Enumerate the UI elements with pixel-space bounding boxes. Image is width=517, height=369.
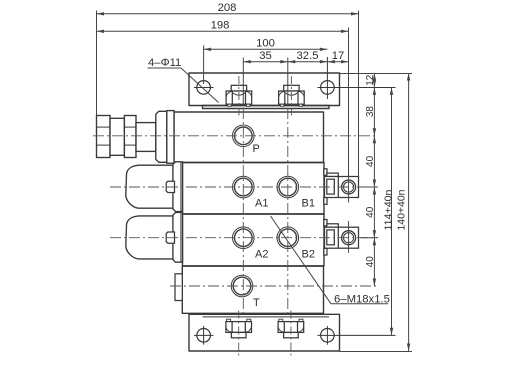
cap collar A1 (173, 162, 183, 212)
bottom mounting plate (189, 314, 340, 351)
right fitting B2 circle (342, 231, 356, 245)
valve body section A2B2 (183, 214, 325, 266)
left relief fitting hex nut (124, 116, 136, 158)
centerline bottom nut right (290, 311, 292, 357)
port B1 (277, 176, 299, 198)
cap stub A1 (166, 181, 174, 192)
port P (233, 125, 255, 147)
svg-text:35: 35 (259, 50, 272, 62)
centerline B1 fitting vertical (348, 171, 350, 203)
dimension 35 (243, 60, 287, 63)
svg-text:A1: A1 (255, 198, 268, 210)
svg-text:208: 208 (218, 2, 237, 14)
centerline row P (93, 135, 378, 137)
svg-text:40: 40 (365, 206, 376, 218)
dimension 114+40n (390, 87, 393, 335)
T section stub (175, 274, 182, 301)
dimension 100 (204, 48, 328, 51)
dimension 140+40n (407, 73, 410, 351)
extension line right 198 (348, 28, 350, 177)
cap stub A2 (166, 232, 174, 243)
bottom plate lip (203, 316, 330, 318)
label 4-phi11 (148, 57, 219, 103)
left relief fitting cylinder (110, 118, 124, 155)
extension line row A1B1 right (361, 186, 379, 188)
centerline row A1B1 (110, 186, 378, 188)
svg-text:17: 17 (332, 50, 345, 62)
plate hole bottom-right (318, 326, 396, 345)
extension line bolt1 (242, 58, 244, 106)
svg-text:B1: B1 (302, 198, 315, 210)
port A2 (233, 227, 255, 249)
bottom stud nut right (278, 319, 304, 338)
plate hole top-left (194, 81, 214, 95)
right fitting B1 circle (342, 180, 356, 194)
dimension chain right 12 (373, 73, 376, 286)
centerline top nut left (238, 76, 240, 116)
valve body section T (outlet) (182, 266, 323, 313)
extension line hole1 vertical (203, 46, 205, 85)
valve body section A1B1 (183, 163, 325, 215)
label 6-M18x1.5 (271, 216, 390, 305)
svg-text:P: P (253, 143, 260, 155)
top mounting plate (189, 73, 340, 106)
centerline vertical column A (242, 108, 244, 314)
right fitting B2 block (324, 220, 359, 256)
extension line right 208 (358, 11, 360, 177)
centerline B2 fitting vertical (348, 221, 350, 253)
left relief fitting collar (156, 111, 167, 162)
svg-text:198: 198 (211, 20, 230, 32)
port A1 (233, 176, 255, 198)
top stud nut left (226, 85, 252, 106)
cap collar A2 (173, 213, 183, 263)
top plate lip (203, 106, 330, 109)
centerline row T (170, 285, 378, 287)
svg-text:B2: B2 (302, 248, 315, 260)
left relief fitting shaft (136, 123, 156, 152)
centerline top nut right (290, 76, 292, 116)
valve body section P (inlet) (174, 112, 324, 163)
centerline bottom nut left (238, 311, 240, 357)
centerline row A2B2 (110, 237, 378, 239)
right fitting B1 block (324, 169, 359, 205)
svg-text:114+40n: 114+40n (383, 190, 394, 231)
svg-text:12: 12 (365, 74, 376, 86)
bottom stud nut left (226, 319, 252, 338)
plate hole bottom-left (194, 326, 214, 345)
extension line row A2B2 right (361, 237, 379, 239)
cap bell A1 (126, 165, 173, 208)
port B2 (277, 227, 299, 249)
port T (231, 275, 253, 297)
extension line left overall (96, 11, 98, 116)
svg-text:140+40n: 140+40n (397, 190, 408, 231)
top stud nut right (279, 85, 305, 106)
svg-text:T: T (253, 297, 260, 309)
cap bell A2 (126, 216, 173, 259)
extension line plate bottom right (340, 351, 413, 353)
dimension 198 (97, 30, 349, 33)
svg-text:38: 38 (365, 106, 376, 118)
svg-text:A2: A2 (255, 248, 268, 260)
left relief fitting hex locknut (97, 116, 111, 158)
svg-text:32.5: 32.5 (297, 50, 319, 62)
svg-text:100: 100 (256, 38, 275, 50)
svg-text:4–Φ11: 4–Φ11 (148, 57, 181, 69)
svg-text:40: 40 (365, 155, 376, 167)
extension line bolt2 (287, 58, 289, 106)
extension line plate top right (340, 73, 413, 75)
centerline vertical column B (287, 108, 289, 314)
plate hole top-right (318, 57, 396, 99)
dimension 208 (97, 12, 359, 15)
left relief fitting boss (167, 111, 174, 164)
dimension 17 (327, 60, 348, 63)
dimension 32.5 (288, 60, 328, 63)
svg-text:40: 40 (365, 256, 376, 268)
